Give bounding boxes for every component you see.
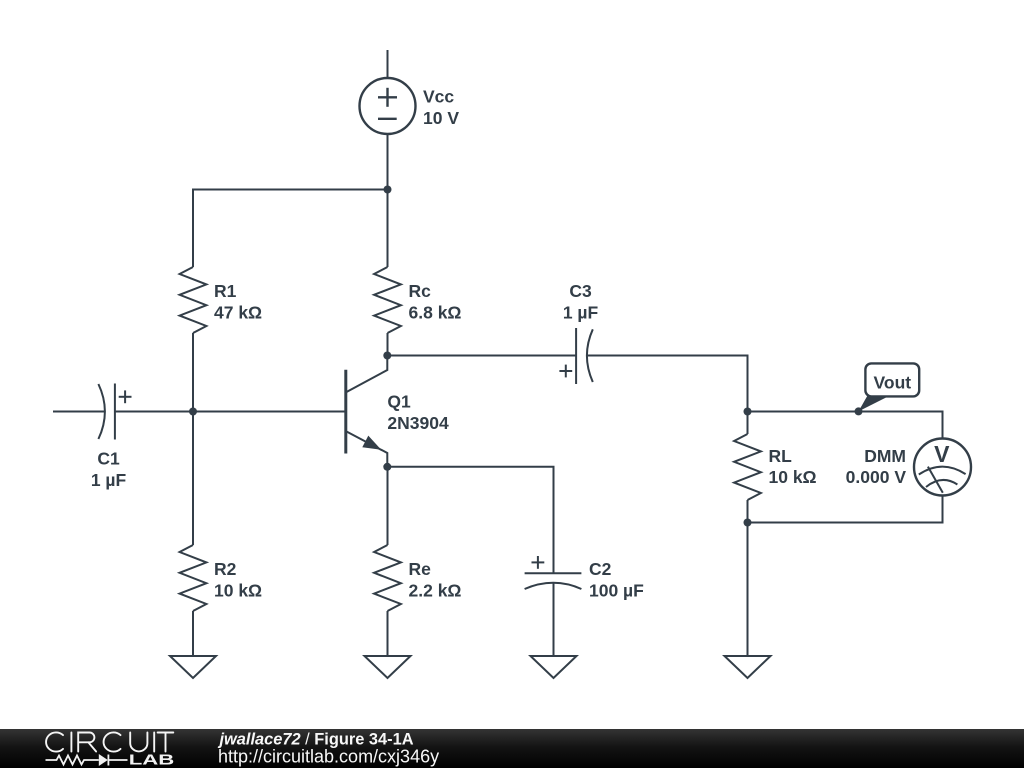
wire Re top lead — [387, 467, 389, 545]
junction dot base node — [189, 408, 197, 416]
resistor RL — [734, 434, 761, 500]
svg-text:DMM: DMM — [864, 446, 906, 466]
resistor Re — [374, 545, 401, 611]
svg-text:1 µF: 1 µF — [91, 470, 127, 490]
svg-text:0.000 V: 0.000 V — [846, 467, 907, 487]
svg-text:http://circuitlab.com/cxj346y: http://circuitlab.com/cxj346y — [218, 746, 439, 766]
wire C1 to base — [115, 411, 345, 413]
wire C3 to RL top — [588, 356, 748, 435]
wire top stub above Vcc — [387, 50, 389, 78]
svg-text:1 µF: 1 µF — [563, 303, 599, 323]
svg-text:RL: RL — [769, 446, 793, 466]
ground at Re — [365, 656, 411, 678]
svg-text:Q1: Q1 — [387, 392, 411, 412]
capacitor C3 — [559, 328, 592, 384]
junction dot Vout tap — [855, 407, 863, 415]
wire Rc bottom lead to collector node — [387, 333, 389, 356]
svg-text:10 V: 10 V — [423, 108, 459, 128]
footer bar — [0, 729, 1024, 768]
logo diode triangle — [99, 754, 108, 766]
voltmeter DMM — [914, 439, 971, 496]
svg-text:10 kΩ: 10 kΩ — [769, 467, 817, 487]
wire top horizontal R1 to Vcc node — [193, 190, 388, 268]
emitter arrow of Q1 — [362, 436, 381, 450]
svg-text:10 kΩ: 10 kΩ — [214, 581, 262, 601]
svg-text:2.2 kΩ: 2.2 kΩ — [409, 581, 462, 601]
wire C2 bottom to ground — [553, 584, 555, 657]
wire R2 bottom to ground — [192, 611, 194, 656]
svg-text:Vcc: Vcc — [423, 87, 454, 107]
voltage source V1 Vcc — [360, 78, 416, 134]
wire Vcc bottom to collector column — [387, 134, 389, 267]
junction dot Vcc node — [384, 186, 392, 194]
capacitor C2 — [525, 556, 582, 589]
svg-text:47 kΩ: 47 kΩ — [214, 303, 262, 323]
wire input left segment — [53, 411, 105, 413]
junction dot emitter node — [383, 463, 391, 471]
svg-text:2N3904: 2N3904 — [387, 413, 449, 433]
resistor Rc — [374, 267, 401, 333]
logo CIRCUIT letters — [46, 732, 173, 751]
svg-text:6.8 kΩ: 6.8 kΩ — [409, 303, 462, 323]
svg-text:100 µF: 100 µF — [589, 580, 644, 600]
wire RL top node to DMM top — [748, 412, 943, 439]
junction dot RL top — [744, 408, 752, 416]
capacitor C1 — [98, 384, 131, 440]
svg-text:Vout: Vout — [874, 372, 912, 392]
resistor R1 — [180, 267, 207, 333]
ground at R2 — [170, 656, 216, 678]
svg-text:C2: C2 — [589, 559, 612, 579]
wire R1 bottom to R2 top — [192, 333, 194, 545]
ground at C2 — [531, 656, 577, 678]
resistor R2 — [180, 545, 207, 611]
wire Re bottom to ground — [387, 611, 389, 656]
svg-text:Rc: Rc — [409, 281, 432, 301]
logo resistor-diode symbol — [46, 755, 128, 766]
svg-text:LAB: LAB — [129, 752, 175, 768]
transistor Q1 — [346, 356, 388, 467]
wire emitter node to C2 top — [387, 467, 553, 573]
wire RL bottom to ground — [747, 500, 749, 656]
svg-text:R1: R1 — [214, 281, 237, 301]
svg-text:V: V — [934, 441, 950, 467]
node label Vout flag — [859, 363, 920, 411]
svg-text:C1: C1 — [97, 449, 120, 469]
junction dot collector node — [383, 352, 391, 360]
junction dot RL bottom — [744, 519, 752, 527]
wire collector node to C3 — [387, 355, 576, 357]
svg-text:Re: Re — [409, 559, 432, 579]
wire DMM bottom to RL bottom node — [748, 496, 943, 523]
svg-text:R2: R2 — [214, 559, 237, 579]
svg-text:C3: C3 — [569, 281, 592, 301]
ground at RL — [725, 656, 771, 678]
